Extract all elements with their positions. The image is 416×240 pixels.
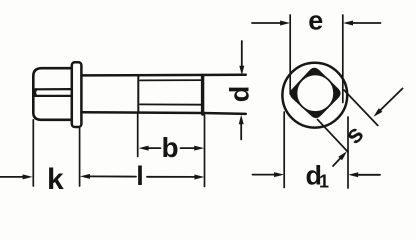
arrowhead d bottom bbox=[239, 115, 244, 125]
collar (flange) bbox=[72, 62, 82, 127]
dimension d1 shaft left bbox=[253, 174, 276, 176]
arrowhead e left bbox=[280, 21, 290, 26]
thread start line bbox=[137, 76, 139, 113]
svg-text:1: 1 bbox=[319, 172, 329, 192]
dimension l shaft left bbox=[89, 175, 136, 177]
arrowhead l right bbox=[194, 175, 204, 180]
dimension e shaft left bbox=[252, 22, 281, 24]
arrowhead b left bbox=[139, 146, 149, 151]
s extension line lower (square edge extended) bbox=[318, 120, 349, 153]
svg-text:e: e bbox=[308, 6, 323, 36]
dimension l shaft right bbox=[147, 176, 195, 178]
extension line k left bbox=[32, 120, 34, 186]
arrowhead d1 left bbox=[274, 172, 284, 177]
dimension d1 shaft right bbox=[358, 174, 381, 176]
square head end view (filled) bbox=[291, 68, 340, 117]
shank circle end view bbox=[297, 74, 335, 112]
arrowhead s lower bbox=[338, 151, 347, 160]
extension line b/l right (bolt tip) bbox=[204, 115, 206, 187]
extension line d1 left bbox=[283, 112, 285, 188]
head chamfer arc left bbox=[35, 89, 36, 96]
arrowhead b right bbox=[194, 146, 204, 151]
arrowhead e right bbox=[343, 21, 353, 26]
outer collar circle end view bbox=[282, 63, 347, 128]
extension line b left (thread start) bbox=[137, 113, 139, 157]
arrowhead s upper bbox=[374, 108, 383, 117]
extension line e right bbox=[342, 15, 344, 103]
dimension b shaft left bbox=[148, 147, 161, 149]
svg-text:k: k bbox=[47, 163, 64, 196]
dimension k line left bbox=[0, 176, 24, 178]
arrowhead k left bbox=[23, 174, 33, 179]
dimension b shaft right bbox=[181, 147, 195, 149]
head chamfer line upper bbox=[35, 88, 72, 90]
dimension d bottom shaft bbox=[240, 124, 242, 140]
shank bottom line bbox=[81, 112, 245, 114]
thread minor diameter bottom bbox=[140, 103, 202, 105]
svg-text:d: d bbox=[225, 86, 255, 103]
svg-text:l: l bbox=[136, 161, 144, 191]
extension line k right (collar) bbox=[79, 129, 81, 187]
arrowhead d top bbox=[239, 66, 244, 76]
s arrow lower shaft bbox=[333, 157, 342, 166]
bolt head side view outline bbox=[33, 68, 72, 120]
svg-text:s: s bbox=[340, 120, 370, 150]
svg-text:b: b bbox=[161, 132, 178, 163]
dimension d top shaft bbox=[241, 41, 243, 67]
s extension line upper (square edge extended) bbox=[344, 90, 378, 126]
head chamfer line lower bbox=[35, 95, 72, 97]
thread minor diameter top bbox=[140, 79, 202, 81]
arrowhead l left bbox=[80, 174, 90, 179]
s arrow upper shaft bbox=[379, 89, 403, 112]
bolt tip end line bbox=[201, 75, 204, 114]
arrowhead d1 right bbox=[348, 172, 358, 177]
extension line d1 right bbox=[347, 117, 349, 188]
extension line e left bbox=[289, 15, 291, 94]
shank top line bbox=[81, 74, 245, 77]
dimension e shaft right bbox=[352, 22, 381, 24]
